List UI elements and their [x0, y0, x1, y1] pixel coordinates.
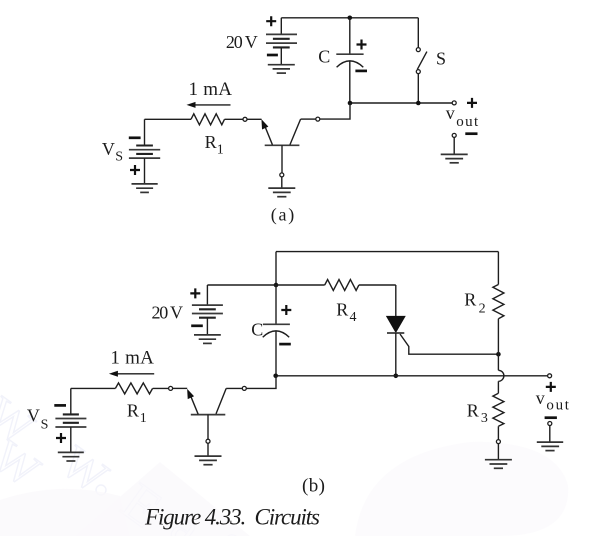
- svg-text:R: R: [336, 300, 348, 320]
- svg-text:C: C: [318, 47, 330, 67]
- svg-text:Figure 4.33. Circuits: Figure 4.33. Circuits: [144, 505, 320, 530]
- svg-text:1 mA: 1 mA: [110, 348, 154, 369]
- svg-text:v: v: [446, 103, 455, 123]
- svg-text:R: R: [467, 401, 479, 421]
- svg-text:R: R: [127, 400, 139, 420]
- svg-text:(a): (a): [271, 204, 294, 225]
- svg-text:V: V: [102, 139, 115, 159]
- svg-text:1 mA: 1 mA: [189, 79, 233, 100]
- svg-text:out: out: [546, 398, 569, 414]
- svg-text:v: v: [536, 388, 545, 408]
- svg-text:R: R: [205, 132, 217, 152]
- svg-text:20 V: 20 V: [226, 32, 258, 52]
- svg-text:4: 4: [350, 310, 357, 325]
- svg-text:20 V: 20 V: [152, 303, 184, 323]
- svg-text:S: S: [115, 150, 123, 165]
- svg-text:R: R: [464, 290, 476, 310]
- svg-text:V: V: [27, 406, 40, 426]
- svg-text:S: S: [436, 48, 446, 68]
- svg-text:2: 2: [479, 301, 486, 316]
- svg-text:S: S: [41, 418, 49, 433]
- svg-text:3: 3: [481, 411, 488, 426]
- svg-text:out: out: [456, 114, 479, 130]
- svg-text:C: C: [251, 319, 263, 339]
- svg-text:(b): (b): [302, 476, 325, 497]
- svg-text:1: 1: [217, 142, 224, 157]
- svg-text:1: 1: [140, 411, 147, 426]
